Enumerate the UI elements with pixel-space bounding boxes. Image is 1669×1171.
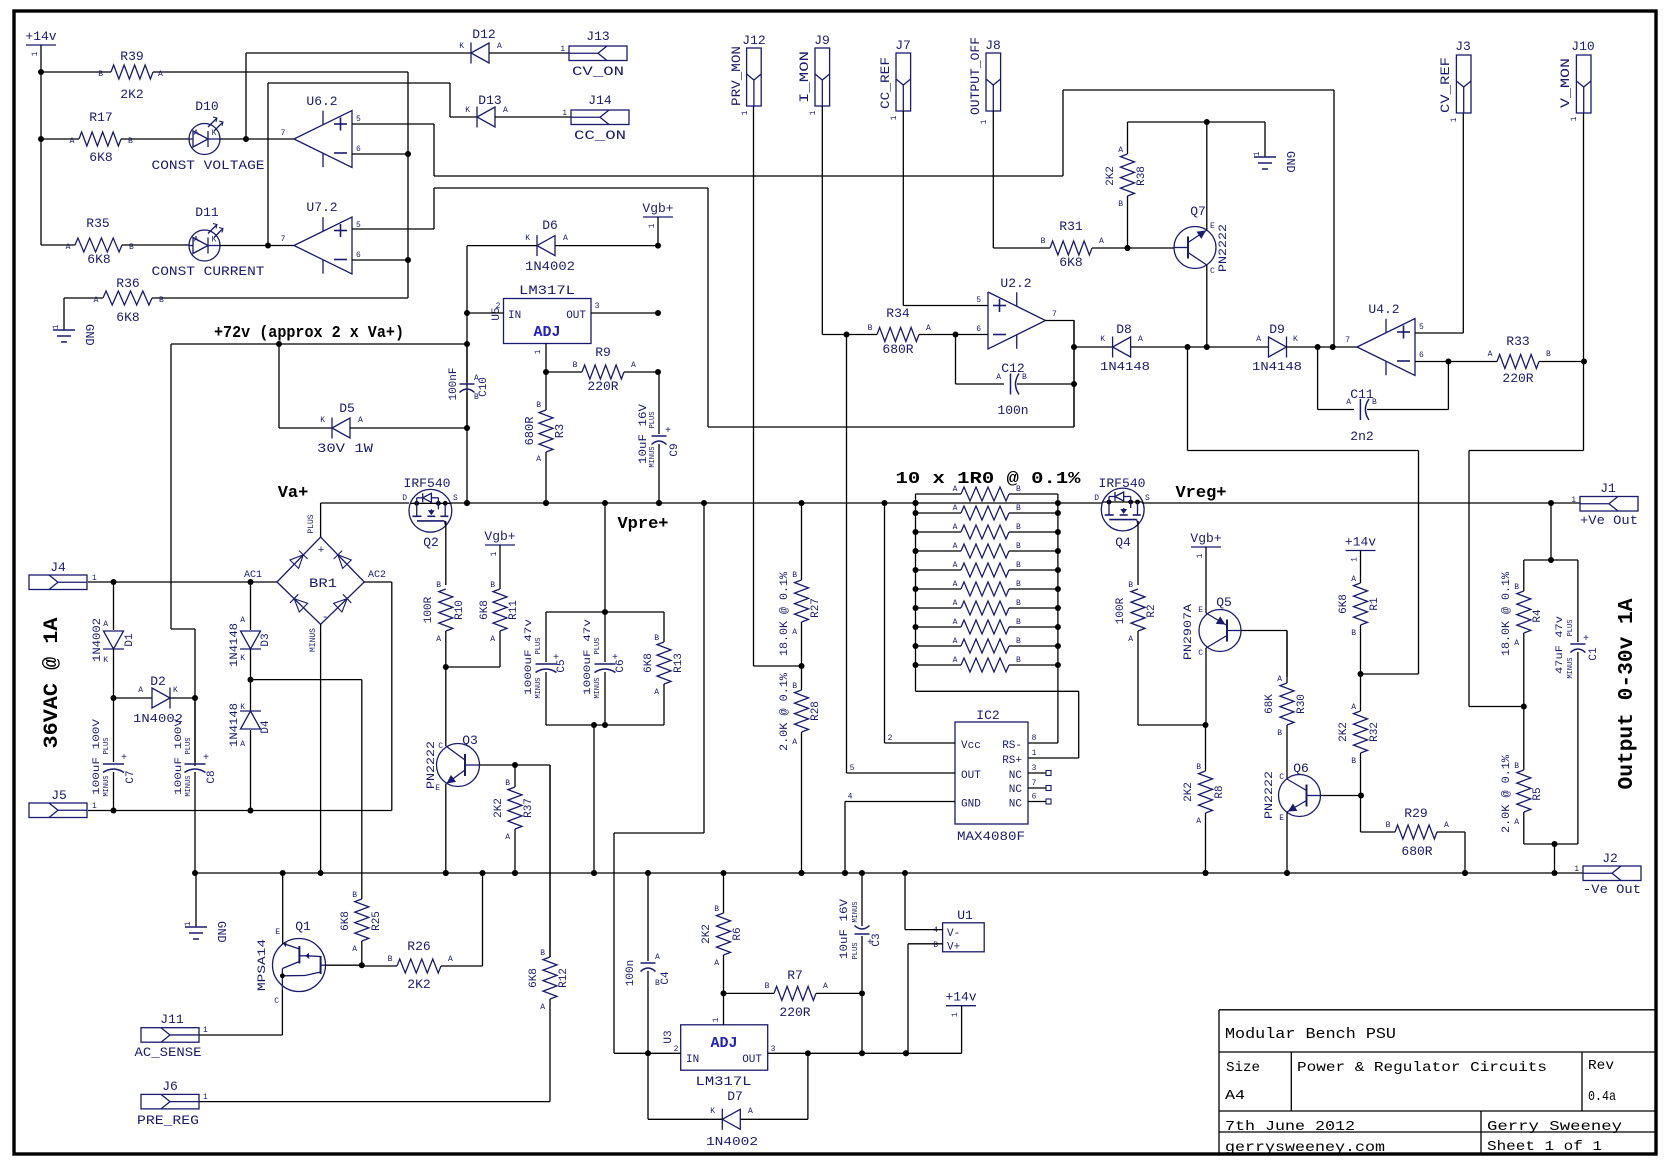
svg-text:C: C — [1279, 773, 1284, 782]
svg-text:K: K — [710, 1107, 715, 1116]
wire D9 to U4.2 output — [1287, 346, 1358, 348]
svg-text:2K2: 2K2 — [1105, 166, 1117, 186]
svg-text:J10: J10 — [1571, 39, 1594, 54]
svg-text:100uF 100V: 100uF 100V — [91, 718, 103, 795]
svg-text:IN: IN — [508, 310, 521, 322]
svg-text:PN2222: PN2222 — [1218, 224, 1230, 272]
wire R5/C1 bottom — [1524, 843, 1578, 845]
wire Vpre+ cap bank top — [604, 503, 606, 612]
resistor R35 — [41, 244, 75, 246]
svg-text:1: 1 — [562, 109, 567, 118]
resistor R29 680R — [1395, 825, 1437, 839]
capacitor C9 10uF 16V — [658, 372, 660, 434]
wire BR1 plus to Va+ rail — [320, 503, 322, 537]
svg-text:R29: R29 — [1404, 806, 1427, 821]
svg-text:R26: R26 — [407, 939, 430, 954]
svg-text:C: C — [438, 742, 443, 751]
wire IC2 NC stubs — [1028, 772, 1046, 774]
svg-text:C8: C8 — [206, 770, 218, 783]
svg-text:4: 4 — [848, 793, 853, 802]
svg-text:R25: R25 — [371, 911, 383, 931]
ic IC2 MAX4080F — [955, 722, 1028, 824]
wire R34 to IC2 OUT — [846, 335, 848, 774]
wire CV feedback U6.2 pin5 net — [433, 124, 435, 176]
svg-text:S: S — [1145, 494, 1150, 503]
svg-text:7th June 2012: 7th June 2012 — [1225, 1119, 1355, 1135]
svg-text:D: D — [1094, 494, 1099, 503]
svg-text:3: 3 — [595, 302, 600, 311]
svg-text:NC: NC — [1009, 784, 1023, 796]
svg-text:R6: R6 — [732, 927, 744, 940]
wire IC2 OUT — [847, 772, 956, 774]
resistor R33 220R — [1497, 355, 1539, 369]
svg-text:U6.2: U6.2 — [306, 94, 337, 109]
svg-text:6K8: 6K8 — [479, 600, 491, 620]
svg-text:A: A — [497, 42, 502, 51]
svg-text:6K8: 6K8 — [89, 150, 112, 165]
svg-text:D12: D12 — [472, 27, 495, 42]
svg-text:+: + — [318, 545, 325, 557]
svg-text:1: 1 — [712, 1017, 721, 1022]
svg-text:B: B — [792, 571, 797, 580]
resistor R34 680R — [847, 334, 878, 336]
capacitor C11 2n2 — [1317, 347, 1319, 410]
svg-text:A: A — [1277, 675, 1282, 684]
svg-text:D13: D13 — [478, 93, 501, 108]
svg-text:B: B — [1514, 583, 1519, 592]
svg-text:2.0K @ 0.1%: 2.0K @ 0.1% — [779, 673, 791, 751]
svg-text:AC_SENSE: AC_SENSE — [135, 1046, 202, 1060]
svg-text:A: A — [563, 234, 568, 243]
wire Q3 base node — [480, 764, 515, 766]
svg-text:10uF 16V: 10uF 16V — [839, 899, 851, 959]
wire U5 IN — [467, 312, 504, 314]
svg-text:D2: D2 — [150, 674, 166, 689]
svg-text:D1: D1 — [124, 633, 136, 647]
wire R39/R36 feedback net vertical — [407, 72, 409, 298]
svg-text:MINUS: MINUS — [594, 677, 602, 698]
wire CC node to op-amp output bus — [707, 188, 709, 427]
svg-text:A: A — [158, 70, 163, 79]
wire Q4 gate to R2 — [1137, 521, 1139, 585]
svg-text:A: A — [1099, 237, 1104, 246]
svg-text:R10: R10 — [454, 600, 466, 620]
svg-text:MINUS: MINUS — [852, 901, 860, 922]
resistor R37 2K2 — [514, 765, 516, 787]
transistor Q1 MPSA14 — [273, 939, 326, 992]
svg-text:8: 8 — [1032, 734, 1037, 743]
svg-text:A: A — [823, 982, 828, 991]
diode D13 — [476, 107, 478, 128]
wire U2.2 output — [1046, 320, 1075, 322]
transistor Q6 PN2222 — [1279, 775, 1321, 817]
wire R32 to R29 — [1361, 831, 1396, 833]
wire GND net top — [1128, 121, 1266, 123]
svg-text:OUT: OUT — [961, 770, 981, 782]
svg-text:1: 1 — [1196, 553, 1205, 558]
svg-text:MPSA14: MPSA14 — [257, 938, 269, 991]
resistor R30 68K — [1280, 683, 1294, 725]
svg-text:B: B — [1277, 729, 1282, 738]
wire D8 node to R1 net — [1187, 347, 1189, 451]
svg-text:U2.2: U2.2 — [1000, 276, 1031, 291]
svg-text:A: A — [953, 599, 958, 608]
svg-text:Q5: Q5 — [1216, 595, 1232, 610]
svg-text:A: A — [194, 129, 199, 138]
svg-text:7: 7 — [1345, 336, 1350, 345]
svg-text:A: A — [503, 106, 508, 115]
svg-text:RS+: RS+ — [1002, 755, 1022, 767]
svg-text:MINUS: MINUS — [1567, 657, 1575, 678]
wire cap bank bottom — [546, 724, 664, 726]
svg-text:MINUS: MINUS — [649, 446, 657, 467]
ground bottom left — [195, 873, 197, 927]
svg-text:1: 1 — [490, 551, 499, 556]
connector J3 CV_REF — [1456, 55, 1471, 113]
svg-text:1: 1 — [534, 349, 543, 354]
svg-text:1: 1 — [1571, 496, 1576, 505]
svg-text:1: 1 — [184, 921, 193, 926]
wire R4/C1 top — [1524, 559, 1578, 561]
svg-text:NC: NC — [1009, 799, 1023, 811]
wire Q7 emitter — [1206, 122, 1208, 230]
svg-text:MINUS: MINUS — [535, 677, 543, 698]
svg-text:MINUS: MINUS — [103, 775, 111, 796]
connector J12 PRV_MON — [747, 48, 762, 106]
svg-text:NC: NC — [1009, 770, 1023, 782]
svg-text:100R: 100R — [1115, 597, 1127, 624]
svg-text:E: E — [1279, 814, 1284, 823]
wire IC2 GND — [845, 801, 955, 803]
svg-text:Q4: Q4 — [1115, 535, 1131, 550]
wire Vpre+ to U3 input jog — [703, 503, 705, 833]
svg-text:MINUS: MINUS — [309, 628, 318, 652]
svg-text:1: 1 — [648, 223, 657, 228]
resistor R12 6K8 — [549, 765, 551, 957]
svg-text:B: B — [490, 581, 495, 590]
voltage regulator U3 LM317L — [681, 1025, 768, 1070]
svg-text:7: 7 — [1052, 310, 1057, 319]
svg-text:6K8: 6K8 — [340, 911, 352, 931]
svg-text:R38: R38 — [1136, 166, 1148, 186]
resistor R2 100R — [1131, 589, 1145, 631]
connector J8 OUTPUT_OFF — [986, 53, 1001, 111]
svg-text:A: A — [953, 542, 958, 551]
wire Vreg+ rail — [1142, 502, 1580, 504]
svg-text:A: A — [953, 561, 958, 570]
svg-text:R9: R9 — [595, 345, 611, 360]
diode D7 1N4002 — [807, 1053, 809, 1119]
svg-text:PLUS: PLUS — [185, 738, 193, 755]
svg-text:7: 7 — [1032, 779, 1037, 788]
svg-text:R7: R7 — [787, 968, 803, 983]
svg-text:D: D — [402, 494, 407, 503]
wire J10 V_MON to divider — [1583, 113, 1585, 451]
wire J7 to U2.2 pin5 — [902, 111, 904, 306]
svg-text:B: B — [792, 682, 797, 691]
svg-text:A: A — [792, 738, 797, 747]
svg-text:D7: D7 — [727, 1089, 743, 1104]
svg-text:E: E — [275, 928, 280, 937]
wire AC2 to J5 row — [364, 581, 392, 583]
svg-text:D5: D5 — [339, 401, 355, 416]
svg-text:R8: R8 — [1214, 785, 1226, 798]
wire Q2 gate to R10 — [445, 521, 447, 585]
op-amp U7.2 — [294, 217, 352, 274]
svg-text:OUT: OUT — [742, 1054, 762, 1066]
svg-text:CV_REF: CV_REF — [1438, 57, 1453, 113]
wire D3/D4 node to R25 — [251, 679, 362, 681]
svg-text:D11: D11 — [195, 205, 219, 220]
connector J13 CV_ON — [569, 46, 627, 61]
wire 0V rail — [195, 872, 1583, 874]
svg-text:A: A — [631, 361, 636, 370]
svg-text:2n2: 2n2 — [1350, 429, 1373, 444]
wire U7.2 output to D13 — [267, 83, 269, 246]
svg-text:1: 1 — [92, 802, 97, 811]
svg-text:6K8: 6K8 — [1338, 594, 1350, 614]
svg-text:Va+: Va+ — [278, 484, 309, 503]
svg-text:R32: R32 — [1369, 722, 1381, 742]
svg-text:K: K — [1293, 335, 1298, 344]
resistor R11 6K8 — [499, 545, 501, 589]
svg-text:V+: V+ — [947, 942, 960, 954]
svg-text:1N4148: 1N4148 — [229, 703, 241, 747]
svg-text:PLUS: PLUS — [594, 638, 602, 655]
svg-text:A: A — [1128, 635, 1133, 644]
svg-text:A: A — [1118, 146, 1123, 155]
transistor Q2 IRF540 — [409, 489, 452, 532]
wire U3 ADJ pin — [723, 993, 725, 1024]
svg-text:J2: J2 — [1602, 851, 1618, 866]
svg-text:1N4148: 1N4148 — [1252, 360, 1302, 374]
ground below R36 — [63, 298, 65, 330]
svg-text:C11: C11 — [1350, 387, 1374, 402]
svg-text:B: B — [1016, 637, 1021, 646]
svg-text:A: A — [70, 137, 75, 146]
svg-text:J1: J1 — [1600, 481, 1616, 496]
transistor Q4 IRF540 — [1101, 488, 1144, 531]
svg-text:Vreg+: Vreg+ — [1175, 484, 1226, 503]
svg-text:1: 1 — [1570, 116, 1579, 121]
svg-text:C12: C12 — [1001, 361, 1024, 376]
svg-text:A: A — [505, 833, 510, 842]
svg-text:I_MON: I_MON — [797, 51, 812, 103]
resistor R8 2K2 — [1205, 725, 1207, 771]
svg-text:0.4a: 0.4a — [1588, 1089, 1616, 1105]
svg-text:C7: C7 — [125, 770, 137, 783]
svg-text:A: A — [1488, 350, 1493, 359]
svg-text:1: 1 — [1032, 749, 1037, 758]
svg-text:R13: R13 — [673, 653, 685, 673]
svg-text:CC_REF: CC_REF — [878, 57, 893, 109]
wire bank left bus to IC2 RS+ — [916, 690, 1079, 692]
svg-text:1000uF 47v: 1000uF 47v — [582, 619, 594, 695]
connector J10 V_MON — [1576, 55, 1591, 113]
svg-text:1: 1 — [31, 51, 40, 56]
svg-text:AC2: AC2 — [368, 570, 386, 581]
svg-text:B: B — [654, 634, 659, 643]
resistor R32 2K2 — [1360, 674, 1362, 711]
svg-text:J12: J12 — [742, 33, 765, 48]
svg-text:A: A — [953, 637, 958, 646]
svg-text:R5: R5 — [1532, 787, 1544, 800]
svg-text:PLUS: PLUS — [1567, 620, 1575, 637]
svg-text:A: A — [536, 455, 541, 464]
svg-text:S: S — [453, 494, 458, 503]
connector J11 AC_SENSE — [141, 1028, 199, 1043]
resistor R17 — [41, 138, 79, 140]
svg-text:CV_ON: CV_ON — [572, 64, 624, 79]
svg-text:gerrysweeney.com: gerrysweeney.com — [1225, 1140, 1385, 1156]
svg-text:1: 1 — [951, 1012, 960, 1017]
svg-text:R37: R37 — [523, 798, 535, 818]
svg-text:Rev: Rev — [1588, 1058, 1614, 1074]
svg-text:2K2: 2K2 — [1183, 782, 1195, 802]
svg-text:D4: D4 — [260, 720, 272, 734]
svg-text:18.0K @ 0.1%: 18.0K @ 0.1% — [1501, 572, 1513, 656]
svg-text:A: A — [926, 324, 931, 333]
svg-text:PN2222: PN2222 — [426, 741, 438, 789]
svg-text:B: B — [352, 891, 357, 900]
capacitor C4 100n — [647, 873, 649, 961]
svg-text:Vgb+: Vgb+ — [642, 201, 673, 216]
svg-text:680R: 680R — [882, 342, 913, 357]
svg-text:1: 1 — [980, 119, 989, 124]
svg-text:5: 5 — [356, 115, 361, 124]
svg-text:B: B — [1514, 762, 1519, 771]
wire U3 OUT to +14v — [768, 1052, 962, 1054]
resistor R9 220R — [546, 371, 582, 373]
wire Q3 collector — [445, 667, 447, 746]
svg-text:680R: 680R — [523, 417, 537, 446]
wire J8 to R31 — [992, 111, 994, 248]
capacitor C3 10uF 16V — [861, 873, 863, 926]
svg-text:B: B — [1016, 618, 1021, 627]
wire U4.2 pin6 — [1415, 361, 1497, 363]
svg-text:R11: R11 — [508, 600, 520, 620]
svg-text:+: + — [1583, 634, 1589, 645]
svg-text:+72v (approx 2 x Va+): +72v (approx 2 x Va+) — [214, 324, 404, 343]
svg-text:A: A — [1196, 817, 1201, 826]
svg-text:Size: Size — [1226, 1060, 1260, 1076]
svg-text:A: A — [654, 688, 659, 697]
wire D12 to J13 — [489, 52, 569, 54]
svg-text:+: + — [203, 753, 209, 764]
svg-text:K: K — [212, 236, 217, 245]
svg-text:J11: J11 — [160, 1012, 184, 1027]
zener diode D5 30V 1W — [278, 344, 280, 428]
svg-text:B: B — [1016, 542, 1021, 551]
svg-text:1N4002: 1N4002 — [706, 1135, 758, 1149]
svg-text:E: E — [1198, 606, 1203, 615]
svg-text:Q3: Q3 — [462, 733, 478, 748]
resistor R5 2.0K — [1523, 707, 1525, 771]
svg-text:+: + — [121, 753, 127, 764]
svg-text:R35: R35 — [86, 216, 109, 231]
bridge rectifier BR1 — [277, 537, 364, 624]
resistor R31 6K8 — [1050, 241, 1092, 255]
diode D4 1N4148 — [250, 680, 252, 711]
resistor R36 — [64, 297, 103, 299]
svg-text:B: B — [1196, 763, 1201, 772]
svg-text:1: 1 — [203, 1026, 208, 1035]
svg-text:6: 6 — [1419, 351, 1424, 360]
svg-text:220R: 220R — [1502, 371, 1533, 386]
capacitor C7 1000uF 100V — [113, 698, 115, 762]
resistor R26 2K2 — [362, 965, 397, 967]
svg-text:100n: 100n — [625, 960, 637, 986]
svg-text:B: B — [536, 401, 541, 410]
wire Vreg rail segment — [1058, 502, 1102, 504]
connector J5 — [29, 803, 87, 818]
svg-text:1N4148: 1N4148 — [229, 623, 241, 667]
svg-text:B: B — [1016, 580, 1021, 589]
svg-text:A: A — [748, 1107, 753, 1116]
svg-text:B: B — [868, 324, 873, 333]
svg-text:B: B — [1016, 485, 1021, 494]
svg-text:R4: R4 — [1532, 609, 1544, 623]
svg-text:PLUS: PLUS — [852, 943, 860, 960]
svg-text:7: 7 — [281, 129, 286, 138]
svg-text:Output 0-30v 1A: Output 0-30v 1A — [1616, 598, 1639, 789]
svg-text:+14v: +14v — [1345, 535, 1376, 550]
svg-text:A: A — [1351, 575, 1356, 584]
svg-text:18.0K @ 0.1%: 18.0K @ 0.1% — [779, 572, 791, 656]
svg-text:A: A — [953, 618, 958, 627]
wire cap bank to 0V rail — [593, 725, 595, 873]
svg-text:R12: R12 — [558, 968, 570, 988]
wire D5 to C10 net — [350, 427, 467, 429]
svg-text:J14: J14 — [588, 93, 612, 108]
svg-text:K: K — [212, 129, 217, 138]
wire R10/R11 junction — [446, 666, 500, 668]
wire +72v rail — [171, 343, 467, 345]
connector J7 CC_REF — [896, 53, 911, 111]
wire D11 to U7.2 output — [220, 245, 294, 247]
wire U7.2 pin6 to R36 net — [352, 259, 407, 261]
svg-text:A: A — [1138, 335, 1143, 344]
svg-text:-: - — [322, 612, 329, 624]
svg-text:A: A — [1444, 821, 1449, 830]
svg-text:IRF540: IRF540 — [404, 477, 451, 491]
svg-text:B: B — [1041, 237, 1046, 246]
diode D1 1N4002 — [113, 582, 115, 630]
svg-text:A: A — [352, 945, 357, 954]
svg-text:B: B — [129, 243, 134, 252]
svg-text:C6: C6 — [615, 659, 627, 672]
wire Vreg+ to divider — [1550, 503, 1552, 560]
svg-text:1: 1 — [1450, 117, 1459, 122]
svg-text:C5: C5 — [556, 659, 568, 672]
svg-text:2.0K @ 0.1%: 2.0K @ 0.1% — [1501, 755, 1513, 833]
wire Q7 collector — [1206, 265, 1208, 347]
wire BR1 minus to 0V rail — [320, 624, 322, 873]
svg-text:5: 5 — [850, 764, 855, 773]
svg-text:30V 1W: 30V 1W — [317, 441, 373, 456]
svg-text:6: 6 — [356, 145, 361, 154]
svg-text:+14v: +14v — [945, 990, 976, 1005]
svg-text:PLUS: PLUS — [649, 412, 657, 429]
resistor R1 6K8 — [1360, 551, 1362, 584]
svg-text:K: K — [173, 686, 178, 695]
svg-text:2K2: 2K2 — [1338, 722, 1350, 742]
svg-text:B: B — [714, 905, 719, 914]
svg-text:100R: 100R — [423, 596, 435, 623]
svg-text:1: 1 — [1574, 865, 1579, 874]
svg-text:B: B — [540, 949, 545, 958]
svg-text:1: 1 — [1253, 151, 1262, 156]
